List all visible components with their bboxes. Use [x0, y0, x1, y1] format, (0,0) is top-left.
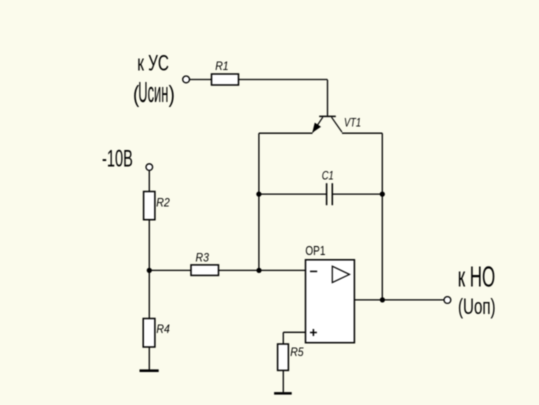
- svg-text:R3: R3: [196, 251, 210, 265]
- svg-text:VT1: VT1: [344, 117, 361, 129]
- svg-text:к УС: к УС: [137, 51, 169, 76]
- svg-text:OP1: OP1: [305, 243, 325, 258]
- svg-text:к НО: к НО: [458, 261, 496, 293]
- svg-text:R1: R1: [215, 60, 228, 73]
- svg-text:Uсин: Uсин: [138, 77, 168, 109]
- svg-text:R4: R4: [156, 323, 170, 336]
- svg-text:): ): [169, 81, 175, 107]
- svg-text:-10В: -10В: [102, 145, 133, 172]
- svg-text:(Uоп): (Uоп): [458, 294, 496, 319]
- svg-text:C1: C1: [322, 168, 334, 182]
- svg-text:R2: R2: [156, 195, 170, 209]
- svg-text:R5: R5: [290, 346, 304, 359]
